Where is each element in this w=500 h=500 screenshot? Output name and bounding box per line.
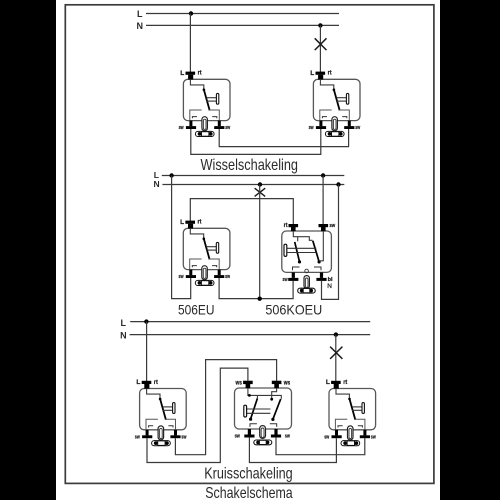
wire N line (section 1): [146, 24, 339, 26]
terminal ws (top left): [243, 381, 253, 384]
rocker handle: [244, 405, 247, 417]
lamp E3: [330, 347, 342, 359]
junction L line right: [321, 173, 325, 177]
terminal bl/N (bottom right): [320, 272, 323, 278]
cable clamp: [298, 288, 316, 293]
lever left contact dot: [249, 418, 252, 421]
black side band left: [0, 0, 56, 500]
switch S2 (506EU right): [309, 70, 361, 137]
wire traveler S1 sw right to S2 sw right: [219, 129, 348, 147]
svg-text:rt: rt: [284, 223, 288, 229]
junction N line right: [336, 182, 340, 186]
lamp E2: [255, 188, 266, 196]
svg-text:L: L: [137, 9, 143, 19]
svg-text:N: N: [153, 179, 159, 189]
wire L feed down-around to S3 sw left: [172, 176, 191, 299]
lever right contact dot: [271, 418, 274, 421]
svg-text:sw: sw: [283, 277, 288, 283]
svg-text:sw: sw: [329, 223, 335, 229]
junction dot feed left: [248, 394, 251, 397]
svg-text:Kruisschakeling: Kruisschakeling: [204, 466, 293, 483]
svg-text:Schakelschema: Schakelschema: [205, 485, 292, 500]
svg-text:ws: ws: [235, 380, 243, 386]
contact bracket left: [293, 267, 300, 270]
terminal sw (bottom left): [248, 429, 251, 435]
internal wire ws right over to left: [272, 388, 277, 399]
junction N line mid: [258, 182, 262, 186]
rocker handle: [284, 244, 287, 256]
wire S3 L terminal up-over to S4 rt terminal: [190, 199, 293, 225]
bottom centre screw arc: [305, 269, 309, 273]
svg-text:Wisselschakeling: Wisselschakeling: [201, 157, 299, 174]
wire traveler S5 sw left over top to S6 ws left: [147, 368, 248, 462]
svg-text:N: N: [137, 21, 144, 31]
switch S6 (cross switch middle): [235, 380, 292, 444]
terminal sw (bottom right): [274, 429, 277, 435]
lever left: [295, 242, 300, 262]
lever stub: [297, 237, 299, 242]
svg-text:506EU: 506EU: [178, 301, 215, 317]
lever right: [273, 399, 281, 419]
junction on L line: [144, 319, 148, 323]
switch S7 (506EU right): [324, 379, 376, 446]
switch body: [282, 231, 332, 272]
junction on N line: [318, 23, 322, 27]
contact bracket right: [314, 267, 321, 270]
wire N to lamp to switch S2: [319, 25, 321, 73]
junction on L line: [189, 11, 193, 15]
terminal sw (bottom left): [292, 272, 295, 278]
lever stub: [256, 395, 258, 398]
rocker rungs: [287, 247, 316, 249]
svg-text:N: N: [120, 330, 127, 340]
switch S5 (506EU left): [135, 379, 187, 446]
lever right contact dot: [318, 260, 321, 263]
svg-text:506KOEU: 506KOEU: [265, 301, 322, 317]
lamp E1: [315, 38, 327, 50]
terminal ws (top right): [272, 381, 282, 384]
svg-text:ws: ws: [283, 380, 291, 386]
switch body: [235, 388, 292, 429]
svg-text:sw: sw: [235, 434, 241, 440]
internal feed from ws left: [248, 388, 281, 399]
wire traveler S5 sw right over top to S6 ws right: [175, 360, 276, 455]
svg-text:sw: sw: [285, 434, 290, 440]
terminal sw (top right): [319, 224, 329, 227]
contact bracket right: [270, 424, 277, 427]
contact bracket left: [250, 424, 257, 427]
switch S4 (506KOEU cross switch): [282, 223, 336, 293]
rocker rungs: [246, 408, 271, 410]
wire L down to switch S5: [146, 322, 148, 382]
wire L line (section 2): [162, 175, 344, 177]
wire N line (section 2): [162, 184, 344, 186]
wire N through lamp down to bottom bus: [259, 185, 261, 299]
internal wire sw top to right contact: [319, 231, 323, 261]
terminal rt (top left): [289, 224, 299, 227]
wire traveler S6 sw left to S7 sw left: [249, 437, 336, 462]
junction lamp wire on bottom bus: [258, 297, 262, 301]
junction L line left: [169, 173, 173, 177]
cable clamp: [254, 440, 272, 445]
black side band right: [440, 0, 500, 500]
wire S3 sw right to S4 sw bottom: [219, 278, 293, 299]
lever left: [251, 398, 258, 419]
wire L line (section 1): [146, 13, 339, 15]
switch S3 (506EU): [179, 219, 231, 286]
wire N through lamp to switch S7: [335, 335, 337, 382]
wire N line (section 3): [130, 334, 371, 336]
border frame: [65, 5, 434, 484]
fixing screw: [304, 276, 309, 289]
junction dot feed right: [270, 398, 273, 401]
wire traveler S6 sw right to S7 sw right: [276, 437, 365, 455]
switch S1 (506EU left): [179, 70, 231, 137]
wire traveler S1 sw left to S2 sw left: [191, 129, 321, 154]
svg-text:bl: bl: [328, 277, 333, 283]
svg-text:N: N: [327, 283, 332, 290]
wire L right down to S4 sw top terminal: [322, 176, 324, 226]
lever right: [313, 241, 319, 262]
lever left contact dot: [298, 260, 301, 263]
wire L to switch S1: [189, 14, 191, 74]
fixing screw: [260, 426, 266, 439]
svg-text:L: L: [121, 318, 127, 328]
junction on N line: [334, 332, 338, 336]
wire N right down around to S4 bl terminal: [322, 185, 339, 300]
internal feed from rt: [293, 231, 312, 240]
wire L line (section 3): [130, 321, 370, 323]
